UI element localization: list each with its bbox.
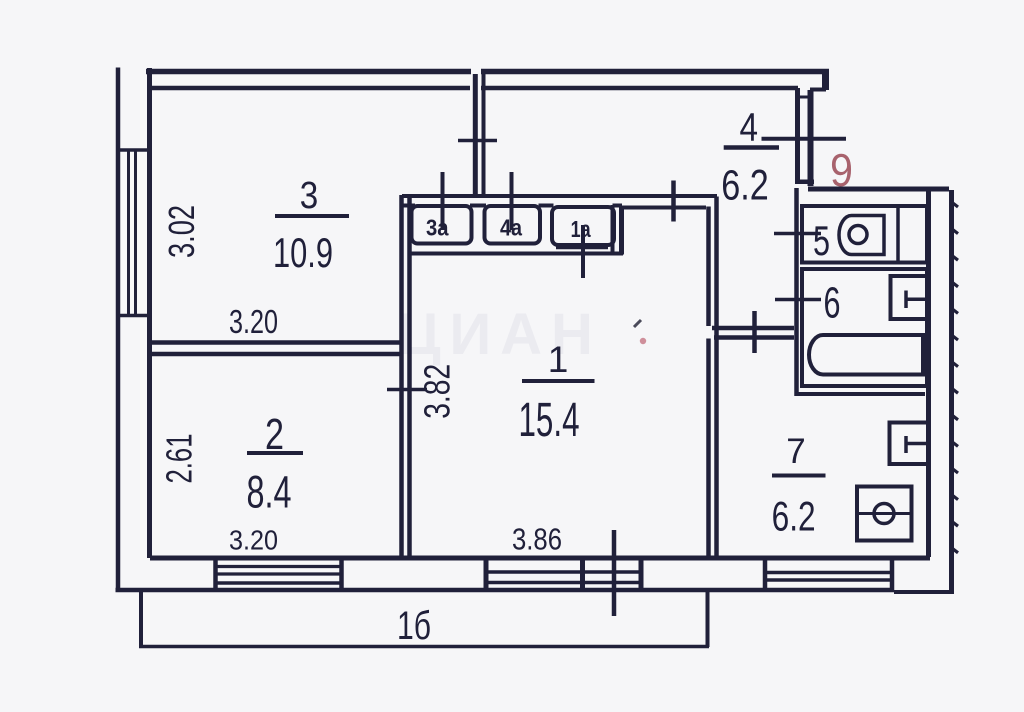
underline room 2: [247, 451, 303, 455]
wall room3/room2 divider lower: [151, 352, 403, 357]
underline room 4: [724, 145, 779, 150]
svg-text:3.20: 3.20: [229, 303, 278, 340]
wall top inner niche stub: [810, 88, 826, 92]
svg-text:4а: 4а: [500, 215, 522, 241]
cap window room7 left: [763, 557, 768, 591]
svg-text:6: 6: [824, 279, 841, 328]
svg-text:3.02: 3.02: [161, 205, 202, 258]
closet 4a box: [485, 206, 541, 244]
wall room3/room2 divider upper: [151, 340, 403, 345]
wall top outer right segment: [481, 69, 829, 75]
wall room1 right line 1 upper: [706, 207, 711, 327]
svg-text:10.9: 10.9: [273, 229, 333, 276]
window room7 line 2: [767, 578, 890, 582]
closet block right edge line 1: [611, 205, 615, 254]
wall left of room 3 and 2: [147, 68, 152, 558]
wall left outer: [116, 68, 121, 590]
tick closet 3a: [441, 172, 445, 230]
wall top inner right segment: [481, 86, 798, 91]
bathroom sink square: [891, 276, 928, 319]
niche top connector: [797, 96, 811, 99]
window room2 line 3: [217, 581, 340, 585]
svg-text:6.2: 6.2: [772, 493, 816, 540]
wall room1 right line 2: [714, 197, 719, 557]
wall room1 top lower face: [622, 206, 707, 210]
cap mullion: [580, 556, 585, 592]
cap window room7 right: [890, 557, 895, 592]
partition room3/kitchen line 2: [482, 74, 486, 196]
window roomB line 1: [585, 570, 639, 574]
watermark red dot: [640, 338, 646, 344]
window roomB line 2: [585, 581, 639, 585]
partition room3/kitchen line 1: [473, 74, 478, 196]
niche vertical line 2: [808, 90, 814, 186]
toilet bowl: [839, 216, 884, 255]
wall bottom bottom face: [116, 588, 895, 593]
underline room 7: [772, 474, 826, 478]
niche bottom: [795, 179, 814, 184]
wall bottom bottom face right: [894, 590, 954, 594]
wall right inner: [926, 189, 931, 557]
window roomA line 2: [488, 581, 581, 585]
closet rail: [411, 252, 623, 256]
svg-text:4: 4: [739, 106, 758, 150]
svg-text:3.20: 3.20: [229, 525, 278, 556]
window room2 line 1: [217, 565, 340, 568]
wall bottom top face: [150, 556, 930, 561]
wall top inner left segment: [151, 86, 470, 91]
wall closets top lower face segments: [403, 204, 415, 208]
dimension line room 4: [762, 137, 847, 141]
wall room1 right line 1 lower: [706, 339, 711, 557]
cap window B right: [639, 556, 644, 592]
wall top outer left segment: [146, 69, 471, 75]
room7 sink square: [890, 423, 929, 465]
svg-text:3.86: 3.86: [512, 522, 562, 557]
window room2 line 2: [217, 572, 340, 575]
closet 1a box: [552, 207, 614, 245]
bathroom 6 box: [802, 269, 927, 386]
room7 sink tap vertical: [904, 436, 908, 453]
balcony left edge: [139, 589, 143, 647]
svg-text:7: 7: [786, 432, 805, 471]
WC divider: [896, 206, 900, 263]
wall right outer: [949, 190, 954, 592]
room7 stove square: [857, 487, 912, 541]
wall closets top upper face: [402, 194, 717, 198]
room7 stove circle: [874, 504, 894, 524]
watermark: [398, 302, 602, 367]
wall top outer end cap: [822, 69, 829, 90]
window room 3 pane line 2: [134, 150, 137, 316]
closet 3a box: [412, 206, 472, 244]
window room7 line 1: [767, 571, 890, 575]
cap window2 right: [339, 557, 344, 590]
tick closet 4a: [510, 172, 514, 230]
wall corridor bottom lower face: [714, 335, 794, 340]
tick balcony door: [612, 530, 617, 616]
tick closet 1a: [581, 225, 585, 278]
niche vertical line 1: [795, 88, 800, 184]
underline room 1: [522, 379, 595, 383]
bath block left wall: [794, 188, 799, 396]
svg-text:2.61: 2.61: [159, 434, 200, 484]
svg-text:8.4: 8.4: [247, 467, 292, 518]
WC room 5 box: [802, 206, 927, 263]
bathroom sink tap vertical: [904, 291, 908, 309]
underline room 3: [275, 214, 349, 218]
balcony right edge: [706, 591, 710, 647]
closet block right edge line 2: [619, 208, 624, 255]
window roomA line 1: [488, 570, 581, 574]
hatch marks right wall: [952, 202, 959, 553]
svg-text:3.82: 3.82: [417, 364, 458, 419]
bathroom sink tap horizontal: [906, 298, 927, 302]
tick on partition: [458, 139, 497, 143]
cap window2 left: [213, 557, 218, 590]
svg-text:5: 5: [813, 217, 830, 264]
svg-text:9: 9: [830, 144, 853, 196]
wall corridor bottom upper face: [712, 326, 794, 331]
svg-text:ЦИАН: ЦИАН: [398, 302, 602, 367]
wall room2/room1 line 1: [399, 195, 404, 558]
svg-text:6.2: 6.2: [721, 162, 769, 210]
bathtub: [809, 335, 923, 375]
svg-text:1: 1: [548, 339, 569, 380]
cap balcony door left: [484, 556, 489, 592]
tick door room7: [752, 311, 757, 353]
tick door WC: [774, 232, 821, 236]
tick door room2: [387, 388, 427, 392]
bath block bottom face: [797, 392, 925, 396]
svg-text:1б: 1б: [397, 604, 431, 648]
window room 3 bottom sill: [116, 314, 150, 318]
toilet circle: [849, 226, 867, 244]
svg-text:3а: 3а: [426, 215, 449, 241]
closet 1a lower rail: [556, 246, 608, 250]
room7 stove line: [858, 512, 912, 515]
svg-text:1а: 1а: [571, 216, 591, 242]
room7 sink tap horizontal: [906, 442, 928, 446]
window room 3 top sill: [116, 148, 150, 152]
window room 3 pane line 1: [127, 150, 130, 316]
watermark slash: [634, 320, 641, 327]
wall room2/room1 line 2: [407, 195, 412, 558]
balcony bottom edge: [139, 645, 709, 649]
svg-text:3: 3: [300, 175, 319, 217]
bath block top wall: [808, 187, 949, 192]
tick door bathroom: [775, 298, 821, 302]
svg-text:15.4: 15.4: [519, 394, 580, 447]
tick kitchen door: [671, 181, 676, 222]
